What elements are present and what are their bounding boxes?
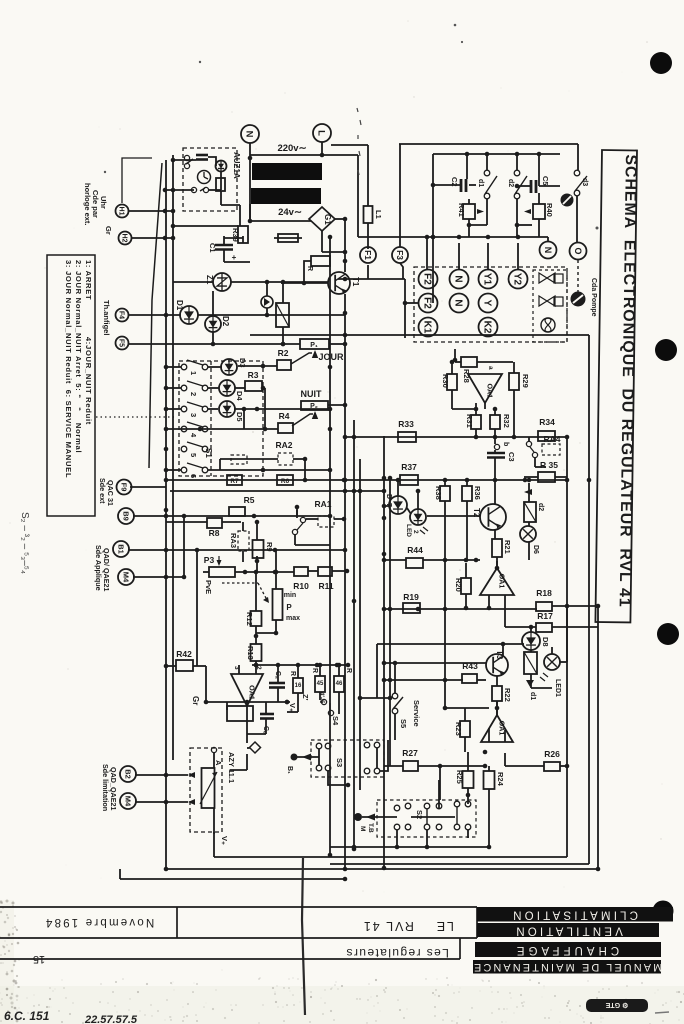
wire relay (282, 282, 284, 303)
svg-text:P3: P3 (204, 555, 215, 565)
svg-text:2: JOUR Normal_NUIT Arret 5:: 2: JOUR Normal_NUIT Arret 5: “ “ Normal (74, 260, 83, 453)
wire 433 drop (431, 183, 436, 188)
svg-text:R32: R32 (502, 414, 511, 428)
diode D2 (205, 316, 221, 332)
svg-text:R20: R20 (454, 578, 463, 592)
table line top (0, 906, 477, 908)
resistor R39 (238, 226, 248, 243)
svg-text:LE RVL 41: LE RVL 41 (362, 919, 454, 933)
diode D8 (522, 632, 540, 650)
svg-text:R: R (289, 671, 296, 676)
bus left inner (172, 155, 174, 760)
svg-text:R19: R19 (403, 592, 419, 602)
wire base row (281, 282, 328, 284)
wire C2 (433, 184, 461, 186)
junction (483, 750, 488, 755)
svg-text:CHAUFFAGE: CHAUFFAGE (513, 944, 619, 956)
svg-text:Cda Pompe: Cda Pompe (590, 278, 597, 317)
wire 405 drop (404, 279, 406, 338)
svg-text:C3: C3 (507, 452, 516, 462)
wire b (494, 437, 496, 444)
punch hole 1 (650, 52, 672, 74)
terminal L (313, 124, 331, 142)
wire R38 (444, 480, 446, 486)
terminal B9 (118, 508, 134, 524)
wire diamond drop (246, 754, 248, 770)
svg-text:R27: R27 (402, 748, 418, 758)
svg-text:R39: R39 (231, 228, 240, 242)
pot P (273, 589, 283, 620)
contact a (184, 155, 193, 168)
svg-text:R 35: R 35 (540, 460, 558, 470)
wire d1 (486, 154, 488, 170)
svg-text:L1: L1 (374, 210, 383, 219)
dotted link (96, 416, 177, 418)
transistor T1 (328, 272, 360, 294)
svg-text:R24: R24 (496, 772, 505, 787)
resistor R22 (492, 686, 502, 701)
svg-text:Service: Service (412, 700, 421, 727)
wire P top (275, 550, 277, 589)
contact d1 (484, 170, 490, 176)
svg-text:CLIMATISATION: CLIMATISATION (510, 909, 638, 921)
RA1 dashed box (318, 516, 334, 527)
svg-text:N: N (543, 247, 553, 253)
svg-text:S1: S1 (204, 448, 213, 458)
resistor R26 (544, 762, 560, 771)
svg-text:R9: R9 (265, 542, 274, 552)
resistor R36 (462, 486, 472, 501)
svg-text:3: 3 (189, 413, 198, 417)
svg-text:1: 1 (189, 371, 198, 375)
svg-text:D6: D6 (532, 545, 539, 554)
svg-text:Y1: Y1 (481, 273, 492, 286)
wire H1 (128, 210, 173, 212)
title text SCHEMA ELECTRONIQUE DU REGULATEUR RVL 41 (616, 154, 639, 607)
svg-text:N: N (452, 299, 463, 306)
svg-text:D1: D1 (175, 300, 184, 311)
svg-text:RA4: RA4 (543, 434, 560, 444)
svg-text:R29: R29 (521, 374, 530, 388)
svg-text:6.C. 151: 6.C. 151 (4, 1009, 50, 1023)
pot P2 (301, 401, 328, 410)
wire relay2 (530, 674, 532, 688)
svg-text:H2: H2 (120, 234, 127, 243)
resistor R9 (253, 540, 264, 558)
wire R26 (505, 765, 544, 767)
wire OA top (238, 665, 240, 674)
svg-text:R: R (311, 668, 318, 673)
svg-text:R38: R38 (434, 486, 443, 500)
svg-text:Sde limitation: Sde limitation (101, 764, 110, 811)
svg-text:d1: d1 (529, 692, 536, 700)
svg-text:Les regulateurs: Les regulateurs (345, 946, 449, 960)
bus 360 (359, 459, 361, 790)
wire R17 (505, 626, 536, 628)
rail 857 (214, 856, 567, 858)
svg-text:R10: R10 (293, 581, 309, 591)
table vline 3 (459, 938, 461, 959)
wire R45 (319, 665, 321, 676)
svg-text:V₊: V₊ (220, 836, 229, 845)
svg-text:R37: R37 (401, 462, 417, 472)
svg-text:AZY 11.1: AZY 11.1 (227, 752, 236, 783)
svg-text:B9: B9 (121, 511, 130, 521)
row1 N (450, 270, 469, 289)
svg-text:R22: R22 (503, 688, 512, 702)
contact S5 (392, 693, 398, 699)
wire Gr (206, 701, 290, 703)
svg-text:Sde Applique: Sde Applique (94, 545, 103, 591)
wire d3 (577, 144, 579, 170)
block VENTILATION (477, 923, 659, 937)
svg-text:OA1: OA1 (498, 574, 507, 589)
svg-text:+: + (232, 253, 237, 262)
rail 491 (170, 490, 384, 492)
inductor L1 (364, 206, 373, 223)
svg-text:P₂: P₂ (310, 403, 318, 410)
wire N drop (249, 143, 251, 222)
mode list box (47, 255, 95, 516)
contact AZY top (211, 747, 216, 752)
svg-text:R17: R17 (537, 611, 553, 621)
svg-text:R23: R23 (454, 722, 463, 736)
wire F1 out (367, 265, 369, 279)
svg-text:C5: C5 (541, 176, 550, 186)
wire R9 (242, 522, 244, 531)
table line low (0, 958, 460, 960)
wire C5 (517, 185, 531, 187)
svg-text:220v∼: 220v∼ (277, 143, 306, 154)
long rail 335 (250, 334, 589, 336)
row1 F2 (419, 270, 438, 289)
capacitor C9 (260, 714, 274, 719)
wire M4b arrow (135, 801, 188, 803)
rail 847b (330, 846, 489, 848)
wire N2 (547, 237, 549, 242)
wire RA1 drop (296, 510, 298, 518)
wire bottom left stub (119, 869, 121, 879)
svg-text:D8: D8 (541, 637, 550, 647)
wire C1 (223, 236, 225, 245)
junctions on left bus (164, 313, 169, 318)
T.B arrow (362, 816, 397, 818)
diode in AUZ1A (216, 161, 227, 172)
svg-text:R4: R4 (279, 411, 290, 421)
svg-text:min: min (284, 592, 296, 599)
block CLIMATISATION (477, 907, 673, 922)
pump M symbol (354, 813, 362, 821)
svg-text:R8: R8 (209, 528, 220, 538)
svg-text:B₁: B₁ (286, 766, 293, 774)
wire B9 (133, 515, 330, 517)
svg-text:F4: F4 (117, 311, 124, 319)
contact d2 (514, 170, 520, 176)
svg-text:OA1: OA1 (248, 685, 257, 700)
diode D7 (389, 496, 407, 514)
pot AZY (202, 768, 215, 808)
resistor R41 (463, 204, 475, 219)
S1 contacts (181, 360, 208, 478)
wire R31 R32 (475, 429, 477, 437)
wire AUZ1A top (173, 159, 196, 161)
svg-text:15: 15 (33, 953, 45, 965)
resistor R32 (490, 415, 500, 429)
wire 567 to 856 (566, 766, 568, 857)
wire D2 (212, 291, 214, 316)
relay contact d2 (524, 502, 536, 522)
wire T1 col (344, 219, 346, 272)
svg-text:R40: R40 (545, 203, 554, 217)
wire R29 (513, 362, 515, 373)
resistor R33 (398, 432, 416, 442)
diamond node (250, 742, 261, 753)
bus mid 330 (329, 237, 331, 855)
bus 567 (566, 437, 568, 766)
transformer secondary winding (251, 188, 321, 204)
resistor R27 (403, 761, 418, 771)
svg-text:16: 16 (295, 683, 302, 689)
bus mid 345 (344, 313, 346, 869)
svg-text:O: O (573, 248, 583, 255)
svg-text:VENTILATION: VENTILATION (513, 925, 623, 937)
svg-text:G1: G1 (323, 214, 332, 225)
wire F3 out (400, 263, 403, 279)
svg-text:LED: LED (405, 524, 412, 537)
wire OA1a pins (452, 408, 477, 410)
svg-text:R12: R12 (245, 612, 254, 626)
junction (248, 156, 253, 161)
wire 440 drop (439, 766, 441, 800)
resistor in AUZ1A (216, 178, 225, 191)
table line mid (0, 937, 477, 939)
wire R13 out (255, 661, 257, 665)
wire P2 (328, 404, 345, 406)
svg-text:D5: D5 (235, 412, 244, 422)
svg-text:a: a (487, 366, 494, 370)
resistor R19 (403, 603, 420, 613)
wire R27 row (384, 765, 403, 767)
S2 contacts (394, 805, 400, 811)
svg-text:max: max (286, 615, 300, 622)
resistor R35 (538, 472, 555, 482)
svg-text:d1: d1 (477, 179, 484, 187)
wire M4a (133, 576, 184, 578)
diode D3 (221, 359, 237, 375)
row2 N (450, 294, 469, 313)
wire D8 (530, 627, 532, 632)
svg-text:C1: C1 (208, 243, 217, 253)
fuse F (278, 234, 298, 242)
wire F9 (130, 486, 166, 488)
rectifier G1 (309, 207, 335, 231)
wire R36 (466, 480, 468, 486)
junction (343, 250, 348, 255)
svg-text:N: N (452, 275, 463, 282)
svg-text:RA1: RA1 (314, 499, 331, 509)
wire L drop (321, 142, 323, 155)
resistor R37 (400, 475, 418, 485)
table vline 1 (176, 907, 178, 938)
op-amp OA1 c (480, 568, 514, 595)
transformer primary winding (252, 163, 322, 180)
marker d1 (526, 680, 534, 687)
wire RA4 (528, 437, 530, 441)
resistor R3 (245, 381, 262, 391)
wire R25 (467, 752, 469, 771)
svg-text:Sde ext: Sde ext (98, 478, 107, 504)
op-amp OA1 d (481, 715, 513, 742)
row1 Y1 (479, 270, 498, 289)
wire T3 (502, 644, 504, 656)
svg-text:F9: F9 (119, 483, 128, 492)
svg-text:S4: S4 (331, 716, 340, 726)
svg-text:Z1: Z1 (205, 275, 214, 285)
svg-text:QAC 31: QAC 31 (106, 480, 115, 506)
terminal M4b (120, 793, 136, 809)
block CHAUFFAGE (475, 942, 661, 957)
terminal F9 (117, 480, 132, 495)
wire F4 (128, 314, 181, 316)
svg-text:Y: Y (481, 300, 492, 307)
bus 390 (389, 478, 391, 766)
S1 dashed box (179, 361, 263, 476)
RA4 dashed box (542, 444, 560, 455)
wire Z1 (173, 281, 213, 283)
svg-text:T.B: T.B (367, 823, 374, 833)
svg-text:R13: R13 (246, 646, 255, 660)
wire N drop 2 (249, 204, 251, 221)
resistor R34 (538, 431, 555, 441)
capacitor C1 (215, 245, 233, 250)
svg-text:24v∼: 24v∼ (278, 207, 302, 218)
junction (163, 188, 168, 193)
relay coil K (276, 303, 289, 327)
rail 480 (166, 479, 567, 481)
junction (343, 311, 348, 316)
svg-text:F3: F3 (395, 250, 405, 260)
fuse F1 (360, 247, 376, 263)
resistor R18 (536, 602, 552, 611)
resistor R5 (229, 507, 245, 516)
valve symbol 1 (539, 273, 555, 283)
svg-text:P: P (286, 603, 292, 612)
table vline 2 (476, 907, 478, 938)
wire OA1c (496, 561, 498, 568)
bus 598 (597, 606, 599, 869)
wire S5 (394, 663, 396, 693)
svg-text:R: R (306, 266, 313, 271)
row2 F2 (419, 294, 438, 313)
svg-text:B1: B1 (116, 544, 125, 554)
svg-text:N: N (244, 131, 255, 138)
svg-text:Th.anfigel: Th.anfigel (102, 300, 111, 335)
pot P1 (300, 339, 329, 349)
svg-text:4′–5: 4′–5 (318, 692, 324, 704)
svg-text:R21: R21 (503, 540, 512, 554)
S3 dashed box (311, 740, 384, 777)
resistor R24 (484, 771, 495, 789)
resistor R43 (462, 674, 477, 683)
svg-text:M4: M4 (123, 796, 132, 807)
svg-text:L: L (316, 130, 327, 136)
svg-text:⚙ GTE: ⚙ GTE (605, 1001, 628, 1009)
wire R46 (338, 665, 340, 676)
pump circle small (561, 194, 574, 207)
wire R16 (297, 665, 299, 678)
dashed pump link (577, 260, 579, 292)
op-amp OA1 b (231, 674, 263, 706)
resistor R12 (251, 611, 262, 626)
wire R8 (166, 521, 207, 523)
svg-text:45: 45 (317, 681, 324, 687)
wire S3 right (380, 740, 388, 771)
wire row5 (164, 447, 169, 452)
wire G1 right (335, 218, 345, 220)
contact S4 (321, 699, 333, 715)
crease line (302, 858, 305, 1015)
wire P3 (235, 571, 294, 573)
svg-text:M4: M4 (121, 572, 130, 583)
wire R24 (488, 766, 490, 771)
svg-text:3: JOUR Normal_NUIT Reduit 6:: 3: JOUR Normal_NUIT Reduit 6: SERVICE MA… (64, 260, 73, 478)
svg-text:R5: R5 (244, 495, 255, 505)
svg-text:6: 6 (189, 474, 198, 478)
diode D4 (219, 380, 235, 396)
wire OA apex (246, 721, 248, 743)
svg-text:b: b (502, 442, 509, 446)
LED1 circle (544, 654, 560, 670)
wire row1 (166, 366, 181, 368)
resistor R16 (293, 678, 303, 693)
resistor R11 (318, 567, 332, 576)
wire row2 (166, 387, 181, 389)
RA2 dashed box (278, 453, 293, 465)
wire row6 (166, 469, 181, 471)
svg-text:LED1: LED1 (554, 679, 561, 697)
svg-text:K1: K1 (421, 321, 432, 334)
transistor T3 (486, 650, 508, 676)
svg-text:A: A (214, 760, 223, 766)
svg-text:46: 46 (336, 681, 343, 687)
punch hole 4 (653, 901, 674, 922)
svg-text:M: M (359, 826, 366, 831)
resistor R44 (406, 558, 423, 568)
wire AUZ1A bottom (220, 191, 222, 205)
svg-text:Y2: Y2 (511, 273, 522, 286)
svg-text:R31: R31 (465, 414, 474, 428)
resistor R20 (461, 578, 471, 594)
AUZ1A dashed box (183, 148, 237, 211)
svg-text:D2: D2 (221, 316, 230, 327)
svg-text:QAD_QAE21: QAD_QAE21 (109, 767, 118, 811)
resistor R23 (460, 721, 470, 737)
terminal O (570, 243, 587, 260)
svg-text:R33: R33 (398, 419, 414, 429)
contact b (191, 187, 208, 192)
svg-text:RA2: RA2 (275, 440, 292, 450)
svg-text:D4: D4 (235, 391, 244, 401)
resistor R7 (227, 475, 242, 485)
resistor R40 (533, 204, 545, 219)
op-amp OA1 a (468, 374, 502, 403)
wire RA2 (220, 458, 278, 460)
wire base (304, 261, 311, 283)
zener Z1 (213, 273, 231, 291)
wire AZY (213, 753, 215, 768)
svg-text:B2: B2 (123, 769, 132, 779)
svg-text:F5: F5 (117, 339, 124, 347)
